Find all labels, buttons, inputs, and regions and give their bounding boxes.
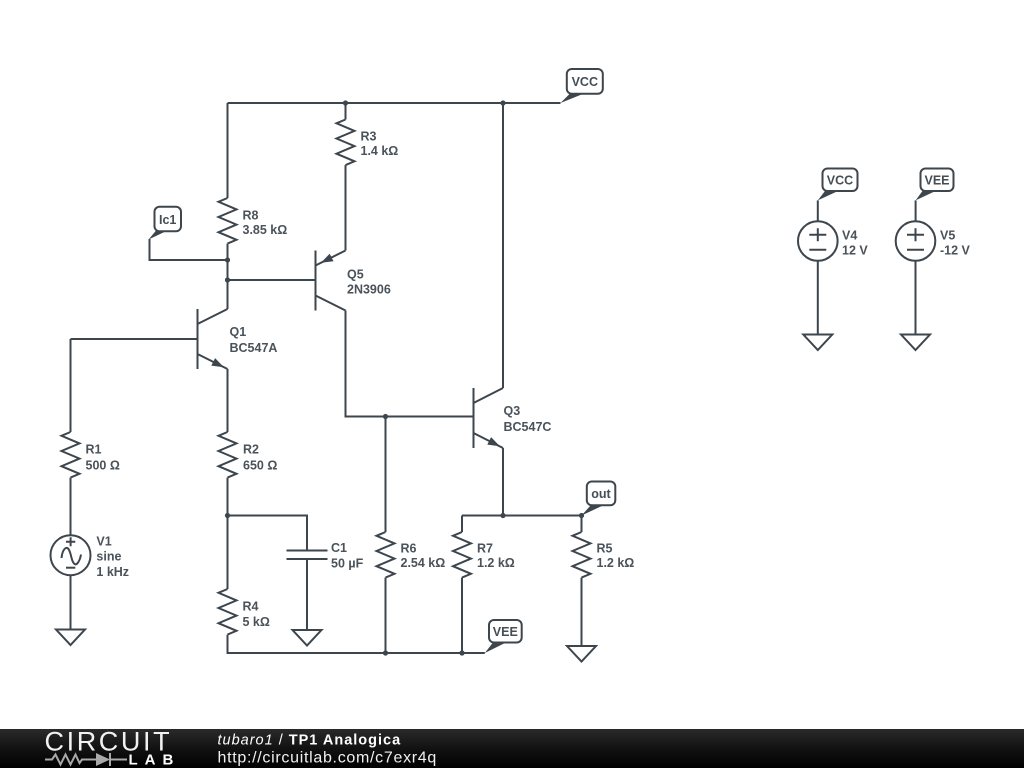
svg-text:tubaro1 / TP1 Analogica: tubaro1 / TP1 Analogica: [218, 733, 402, 749]
svg-text:5 kΩ: 5 kΩ: [243, 615, 270, 629]
svg-text:BC547C: BC547C: [504, 420, 552, 434]
svg-text:R5: R5: [597, 542, 613, 556]
svg-text:out: out: [591, 487, 611, 501]
svg-text:12 V: 12 V: [842, 244, 868, 258]
svg-text:R4: R4: [243, 600, 259, 614]
svg-text:2.54 kΩ: 2.54 kΩ: [401, 556, 446, 570]
svg-text:V4: V4: [842, 229, 857, 243]
svg-text:Q5: Q5: [347, 268, 364, 282]
svg-text:VEE: VEE: [493, 625, 518, 639]
svg-text:VEE: VEE: [924, 174, 949, 188]
svg-text:R8: R8: [243, 209, 259, 223]
svg-text:R6: R6: [401, 542, 417, 556]
svg-text:1.2 kΩ: 1.2 kΩ: [477, 556, 515, 570]
svg-text:C1: C1: [331, 541, 347, 555]
svg-text:VCC: VCC: [572, 75, 598, 89]
svg-text:Q1: Q1: [230, 325, 247, 339]
svg-text:VCC: VCC: [827, 174, 853, 188]
svg-text:V1: V1: [96, 535, 111, 549]
svg-text:http://circuitlab.com/c7exr4q: http://circuitlab.com/c7exr4q: [218, 749, 438, 766]
svg-text:1.2 kΩ: 1.2 kΩ: [597, 556, 635, 570]
svg-text:500 Ω: 500 Ω: [86, 459, 120, 473]
svg-text:R1: R1: [86, 443, 102, 457]
svg-text:1.4 kΩ: 1.4 kΩ: [361, 144, 399, 158]
svg-text:R2: R2: [243, 443, 259, 457]
svg-text:V5: V5: [940, 229, 955, 243]
svg-text:LAB: LAB: [129, 752, 181, 768]
svg-text:Q3: Q3: [504, 404, 521, 418]
svg-text:R7: R7: [477, 542, 493, 556]
svg-text:2N3906: 2N3906: [347, 283, 391, 297]
svg-text:650 Ω: 650 Ω: [243, 459, 277, 473]
svg-text:R3: R3: [361, 130, 377, 144]
svg-text:1 kHz: 1 kHz: [96, 565, 129, 579]
svg-text:BC547A: BC547A: [230, 341, 278, 355]
svg-text:50 µF: 50 µF: [331, 557, 364, 571]
svg-text:3.85 kΩ: 3.85 kΩ: [243, 223, 288, 237]
svg-text:-12 V: -12 V: [940, 244, 971, 258]
svg-text:Ic1: Ic1: [159, 213, 176, 227]
svg-text:sine: sine: [96, 550, 121, 564]
